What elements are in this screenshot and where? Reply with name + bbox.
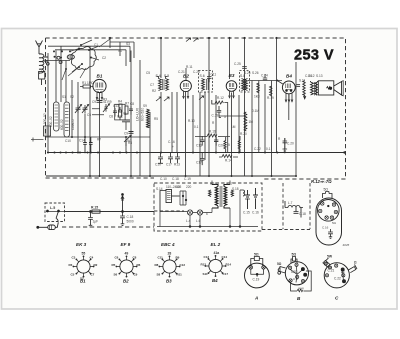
svg-text:R.16: R.16: [209, 130, 216, 134]
svg-text:253 V: 253 V: [294, 48, 334, 64]
coil S9: [147, 109, 150, 128]
svg-text:LO–LUX: LO–LUX: [136, 107, 140, 121]
svg-text:C.19: C.19: [212, 114, 219, 118]
svg-text:C13: C13: [196, 144, 202, 148]
svg-text:5000: 5000: [127, 220, 134, 224]
coil L1 box: [54, 102, 60, 131]
svg-text:C.10: C.10: [160, 177, 167, 181]
C14 cap on x85 drop: [65, 137, 132, 153]
power box internal wires: [157, 181, 258, 228]
svg-text:C17: C17: [223, 272, 229, 276]
junction dot: [276, 80, 278, 82]
svg-text:5Ω: 5Ω: [254, 253, 259, 257]
connector B inner wires: [290, 266, 303, 282]
svg-text:+: +: [172, 145, 174, 149]
svg-text:C.18: C.18: [299, 212, 306, 216]
svg-text:R5: R5: [112, 263, 116, 267]
svg-text:WW: WW: [298, 287, 304, 291]
svg-text:C20: C20: [291, 270, 297, 274]
coil L3 box: [64, 102, 70, 137]
svg-text:C5: C5: [146, 71, 150, 75]
C18 cap on mains line: [120, 212, 125, 225]
svg-text:S.5: S.5: [164, 74, 169, 78]
R15 series resistor: [65, 210, 155, 213]
svg-text:600–520: 600–520: [141, 108, 145, 121]
svg-text:C17: C17: [196, 161, 202, 165]
svg-text:EF 9: EF 9: [121, 242, 131, 247]
svg-text:1M: 1M: [231, 125, 236, 129]
svg-text:0.1: 0.1: [266, 147, 271, 151]
svg-text:B4: B4: [212, 278, 218, 283]
trimmer C6a: [75, 105, 82, 114]
svg-text:EL 2: EL 2: [211, 242, 221, 247]
mains plug: [37, 222, 59, 229]
svg-text:CABLU: CABLU: [71, 119, 75, 130]
svg-text:0.1M: 0.1M: [252, 109, 259, 113]
svg-text:B3: B3: [229, 73, 235, 78]
Ca cap: [124, 132, 134, 136]
svg-text:B4: B4: [286, 74, 292, 79]
svg-text:S8: S8: [157, 273, 161, 277]
connector B pins: [289, 263, 307, 283]
svg-text:C.23: C.23: [193, 70, 200, 74]
antenna coil L0: [39, 52, 48, 85]
svg-text:C.21: C.21: [178, 70, 185, 74]
svg-text:C14: C14: [79, 139, 85, 143]
svg-text:C.18: C.18: [127, 215, 134, 219]
C25 cap on 244.5: [242, 67, 247, 69]
tube B1: [93, 79, 106, 93]
svg-text:R1 1MΩ: R1 1MΩ: [82, 81, 94, 85]
svg-text:S1: S1: [118, 49, 122, 53]
tube B4: [282, 81, 295, 94]
oval D body: [316, 198, 342, 245]
svg-text:C13: C13: [113, 104, 119, 108]
connector B top bracket: [291, 257, 297, 264]
svg-text:1kΩ: 1kΩ: [254, 95, 260, 99]
svg-text:S.17: S.17: [226, 182, 233, 186]
connector C right bracket: [348, 265, 357, 273]
EL2 group: [201, 242, 232, 283]
svg-text:C3: C3: [72, 256, 76, 260]
bus y176: [46, 175, 296, 177]
connector B left bracket: [278, 267, 286, 275]
svg-text:C.9: C.9: [293, 277, 298, 281]
transformer aux winding: [209, 190, 234, 197]
socket EBC4: [159, 256, 179, 276]
svg-text:L.7: L.7: [288, 201, 293, 205]
R18 vertical resistor: [254, 83, 260, 99]
svg-text:1M: 1M: [249, 120, 254, 124]
svg-text:B2: B2: [183, 74, 189, 79]
C24 cap: [261, 74, 268, 80]
antenna arrow a: [121, 194, 124, 213]
svg-text:C.21: C.21: [328, 269, 335, 273]
choke L6: [240, 190, 245, 196]
IF can 2 box: [199, 71, 213, 93]
socket EL2: [205, 256, 225, 276]
svg-text:S.14: S.14: [156, 187, 163, 191]
R16 zigzag mid: [204, 130, 221, 138]
svg-text:5: 5: [224, 115, 226, 119]
vertical resistor r5b: [238, 136, 240, 153]
svg-text:C.19: C.19: [184, 177, 191, 181]
junction dots y176: [89, 175, 297, 177]
svg-text:C7: C7: [150, 83, 154, 87]
connector C pins: [325, 264, 345, 283]
svg-text:S.11: S.11: [299, 79, 306, 83]
power transformer windings: [212, 185, 230, 209]
svg-text:C10: C10: [65, 139, 71, 143]
svg-text:C.22: C.22: [334, 277, 341, 281]
svg-text:R7: R7: [97, 138, 101, 142]
junction dots y137: [71, 136, 127, 138]
svg-text:C6: C6: [87, 113, 91, 117]
svg-text:L.6: L.6: [196, 219, 201, 223]
svg-text:B3: B3: [166, 279, 172, 284]
svg-text:S9: S9: [143, 104, 147, 108]
C13 caps mid: [200, 136, 218, 146]
svg-text:R.12⇒○7Ω: R.12⇒○7Ω: [311, 179, 332, 184]
C20 cap right: [278, 137, 294, 153]
svg-text:28: 28: [168, 252, 172, 256]
switch contact dots: [53, 44, 92, 70]
power box tiny labels: [156, 182, 239, 223]
svg-text:S.13: S.13: [316, 74, 323, 78]
svg-text:C.20: C.20: [287, 142, 294, 146]
svg-text:R13: R13: [174, 163, 180, 167]
svg-text:EBC 4: EBC 4: [161, 242, 175, 247]
dashed L5 box: [45, 203, 65, 222]
antenna: [36, 41, 43, 53]
speaker box: [318, 81, 334, 95]
svg-text:500–52: 500–52: [43, 113, 47, 124]
svg-text:C20: C20: [218, 144, 224, 148]
svg-text:B1: B1: [97, 74, 103, 79]
svg-text:C1: C1: [94, 43, 98, 47]
L7 C18 right sub-box: [285, 201, 306, 218]
svg-text:C9: C9: [96, 98, 100, 102]
svg-text:S.12: S.12: [308, 74, 315, 78]
oval D pins: [319, 202, 338, 220]
svg-text:C.16: C.16: [168, 140, 175, 144]
svg-text:R7: R7: [125, 102, 129, 106]
svg-text:C8: C8: [130, 102, 134, 106]
svg-text:R.10: R.10: [188, 119, 195, 123]
connector C top-left bracket: [323, 258, 332, 269]
svg-text:1μF: 1μF: [93, 220, 99, 224]
svg-text:C.19: C.19: [253, 278, 260, 282]
selector wires cluster: [180, 191, 187, 205]
mid cluster caps/resistors x118-135: [119, 104, 133, 130]
S8 coil right of B3: [242, 79, 248, 91]
R19 vertical resistor: [267, 86, 274, 100]
svg-text:220: 220: [186, 185, 192, 189]
top horizontal wires: [46, 42, 282, 137]
B4 grid wire: [278, 81, 283, 84]
svg-text:C11: C11: [211, 73, 217, 77]
tall zigzag R20: [244, 112, 247, 131]
pilot lamp 2: [197, 210, 202, 215]
B1 cathode leads: [96, 92, 103, 100]
R9 pot: [103, 104, 110, 112]
svg-text:R.19: R.19: [267, 96, 274, 100]
svg-text:R3: R3: [69, 263, 73, 267]
svg-text:R3: R3: [103, 98, 107, 102]
svg-text:S9: S9: [146, 125, 150, 129]
connector A inner wiring: [251, 269, 264, 277]
svg-text:C17: C17: [166, 163, 172, 167]
svg-text:R.11: R.11: [186, 65, 193, 69]
svg-text:A: A: [254, 296, 258, 301]
svg-text:S.26: S.26: [252, 71, 259, 75]
L2 side box: [44, 126, 51, 136]
svg-text:S2: S2: [70, 95, 74, 99]
svg-text:C5: C5: [71, 273, 75, 277]
svg-text:C.18: C.18: [172, 177, 179, 181]
tuning indicator ellipse: [67, 55, 74, 60]
svg-text:S.18: S.18: [232, 187, 239, 191]
svg-text:S.25: S.25: [244, 71, 251, 75]
C10 C17 cluster under IF1: [158, 153, 180, 163]
svg-text:B2: B2: [123, 279, 129, 284]
tube B3: [226, 81, 237, 92]
C17 cap low: [196, 153, 204, 165]
svg-text:C.16: C.16: [322, 226, 329, 230]
svg-text:B1: B1: [80, 279, 86, 284]
NE arrows pair3 top: [186, 38, 198, 42]
svg-text:5Ω: 5Ω: [324, 188, 329, 192]
terminal A1: [57, 56, 60, 59]
mains voltage selector: [160, 190, 180, 212]
connector A circle: [245, 263, 270, 288]
connector A bracket: [251, 257, 263, 267]
C14 cap mid: [212, 100, 222, 118]
svg-text:4045: 4045: [343, 243, 350, 247]
svg-text:6: 6: [206, 212, 208, 216]
svg-text:R11: R11: [177, 273, 183, 277]
R1 resistor: [80, 85, 94, 88]
connector A pins: [249, 266, 265, 270]
dashed main border: [46, 38, 346, 227]
svg-text:C2: C2: [102, 56, 106, 60]
R12 zigzag: [215, 96, 228, 105]
switch fan wires: [62, 39, 110, 80]
svg-text:C9: C9: [124, 132, 128, 136]
dashed power supply box: [154, 183, 310, 231]
oval D bracket: [323, 192, 333, 199]
wire y211 mains: [46, 211, 154, 213]
svg-text:C.24: C.24: [261, 74, 268, 78]
svg-text:41a: 41a: [214, 251, 220, 255]
box around C8 cluster: [92, 104, 125, 120]
svg-text:L.5: L.5: [50, 206, 55, 210]
svg-text:S3: S3: [126, 42, 130, 46]
S11 resistor: [297, 81, 306, 99]
speaker cone: [334, 81, 343, 96]
vertical resistor r5a: [224, 137, 226, 153]
svg-text:R.12: R.12: [217, 96, 224, 100]
svg-text:C10: C10: [155, 163, 161, 167]
svg-text:600–52: 600–52: [49, 116, 53, 127]
svg-text:55: 55: [82, 252, 86, 256]
B3 cathode leads: [229, 91, 235, 98]
socket EF9: [116, 256, 136, 276]
svg-text:600–52: 600–52: [60, 119, 64, 130]
svg-text:R.20: R.20: [240, 132, 247, 136]
svg-text:5Ω: 5Ω: [292, 253, 297, 257]
junction dots y153: [47, 151, 346, 153]
wire y136: [195, 136, 230, 138]
svg-text:R8: R8: [155, 263, 159, 267]
svg-text:L.4: L.4: [186, 219, 191, 223]
svg-text:S1: S1: [62, 95, 66, 99]
socket EK3: [73, 256, 93, 276]
oval D socket circle: [318, 200, 340, 222]
NE arrows pair1: [156, 97, 169, 101]
output transformer S12 S13: [311, 81, 318, 96]
terminal A3: [46, 62, 49, 65]
svg-text:49: 49: [125, 252, 129, 256]
svg-text:C.22: C.22: [254, 147, 261, 151]
scattered tiny labels top section: [43, 42, 259, 181]
svg-text:5W: 5W: [327, 255, 333, 259]
B4 cathode leads: [285, 93, 293, 102]
svg-text:R.15: R.15: [91, 206, 98, 210]
svg-text:R.14: R.14: [225, 159, 232, 163]
connector C circle: [324, 263, 349, 288]
C18a cap below line: [88, 211, 93, 227]
connector B bottom loop: [291, 271, 312, 292]
terminal A2: [59, 61, 62, 64]
svg-text:EK 3: EK 3: [76, 242, 87, 247]
R8 pot arrow: [124, 136, 132, 147]
junction border dots: [109, 37, 278, 39]
svg-text:5: 5: [228, 143, 230, 147]
svg-text:S.6: S.6: [200, 74, 205, 78]
svg-text:125: 125: [176, 185, 182, 189]
bus y153: [47, 152, 345, 154]
svg-text:C6: C6: [115, 256, 119, 260]
svg-text:C.15: C.15: [243, 211, 250, 215]
oscillator unit blob: [71, 47, 96, 70]
L5 switch: [47, 210, 60, 222]
svg-text:C9Ω: C9Ω: [125, 139, 132, 143]
C15 electrolytic: [245, 190, 250, 209]
svg-text:R2: R2: [152, 89, 156, 93]
trimmer C6b: [82, 105, 89, 138]
vertical wires: [48, 38, 296, 176]
connector B circle: [285, 262, 308, 285]
pilot lamp 1: [187, 210, 192, 215]
NE arrow pair2: [199, 96, 204, 100]
svg-text:R5: R5: [154, 117, 158, 121]
svg-text:5Ω: 5Ω: [277, 262, 282, 266]
C9 cap under B1: [92, 100, 103, 104]
svg-text:Ω: Ω: [354, 261, 357, 265]
svg-text:S6: S6: [114, 273, 118, 277]
svg-text:0.1: 0.1: [194, 125, 199, 129]
IF can 3 box: [240, 71, 250, 93]
C15 cap: [89, 137, 93, 153]
svg-text:C.25: C.25: [234, 62, 241, 66]
tube B2: [180, 80, 191, 91]
misc faint marks: [31, 138, 44, 142]
svg-text:S11: S11: [203, 272, 209, 276]
C16 electrolytic: [253, 188, 258, 209]
oval D bottom cap: [328, 229, 333, 238]
C11 cap: [207, 72, 216, 82]
svg-text:R4: R4: [118, 100, 122, 104]
B2 cathode leads: [183, 91, 190, 99]
svg-text:S.16: S.16: [210, 182, 217, 186]
R14 zigzag low: [219, 155, 238, 163]
svg-text:C8: C8: [109, 115, 113, 119]
svg-text:C.16: C.16: [252, 211, 259, 215]
C13 R6 cluster: [113, 107, 122, 120]
